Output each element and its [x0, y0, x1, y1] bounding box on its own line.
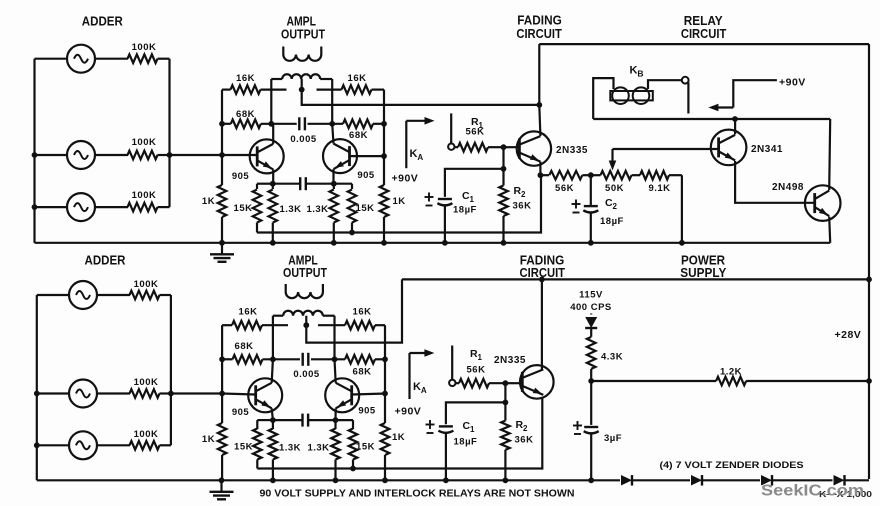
wire: +90V feed bus (15K bottoms to 2N335 emitter): [257, 175, 541, 232]
node: right collector junction (bottom): [332, 356, 338, 362]
resistor 15K (left, top): [256, 184, 258, 189]
wire: 16K row (top): [222, 88, 231, 90]
svg-text:+28V: +28V: [835, 329, 862, 341]
resistor 16K (left, bottom): [232, 321, 262, 330]
wire: Q4 collector up: [734, 119, 736, 134]
svg-text:100K: 100K: [132, 190, 157, 201]
svg-text:FADING: FADING: [517, 14, 562, 28]
resistor 68K (left, bottom): [233, 355, 263, 364]
svg-text:1.3K: 1.3K: [306, 204, 328, 215]
resistor R1 56K (bottom): [456, 382, 460, 384]
svg-text:18µF: 18µF: [600, 216, 624, 227]
node: right collector junction: [329, 121, 335, 127]
wire: Q7 base to right rail: [352, 394, 385, 395]
node: Q6 emitter junction: [270, 417, 276, 423]
svg-text:+90V: +90V: [779, 77, 806, 89]
node: fading feed junction: [536, 102, 542, 108]
resistor 1.3K (left, bottom): [272, 420, 274, 429]
wire: emitter to 15K left (bottom): [257, 419, 273, 421]
svg-text:18µF: 18µF: [454, 437, 478, 448]
svg-text:ADDER: ADDER: [85, 254, 126, 268]
wire: 9.1K down to ground rail: [681, 175, 683, 243]
wire: top adder left bus: [33, 59, 35, 243]
wire: 68K row (bottom): [222, 358, 232, 360]
switch contact (R1 input, top): [450, 113, 452, 143]
svg-text:+90V: +90V: [395, 406, 422, 418]
resistor 1K (left, top amp): [218, 185, 227, 217]
node: Q1 emitter junction: [270, 181, 276, 187]
transformer T1 output winding: [282, 47, 284, 55]
svg-text:1.2K: 1.2K: [720, 367, 742, 378]
node: left rail taps: [219, 121, 225, 127]
wire: junction to base (bottom): [505, 382, 521, 384]
zener diode D1: [621, 475, 632, 486]
zener diode D4: [834, 475, 845, 486]
wire: Q6 emitter down: [272, 408, 273, 420]
svg-text:1: 1: [478, 353, 483, 362]
wire: Q2 collector up: [332, 124, 333, 144]
node: rail junctions (top): [270, 240, 276, 246]
svg-text:2N335: 2N335: [494, 355, 526, 366]
wire: emitter to 15K right (bottom): [336, 419, 354, 421]
zener diode D3: [761, 475, 772, 486]
svg-text:ADDER: ADDER: [82, 15, 123, 29]
AC source G4: [37, 294, 69, 296]
diode (115V input): [590, 314, 592, 315]
wire: Q2 emitter down: [332, 169, 334, 184]
resistor 15K (left, bottom): [256, 420, 258, 429]
wire: Q6 base from left rail: [222, 394, 256, 395]
wire: amp left rail (bottom): [221, 325, 223, 423]
node: left collector junction: [268, 121, 274, 127]
wire: 68K row (top): [222, 123, 231, 125]
wire: T1 right end down to collector node: [331, 79, 333, 124]
svg-text:90 VOLT SUPPLY AND INTERLOCK R: 90 VOLT SUPPLY AND INTERLOCK RELAYS ARE …: [260, 489, 575, 500]
svg-text:(4) 7 VOLT ZENDER DIODES: (4) 7 VOLT ZENDER DIODES: [660, 460, 804, 471]
svg-text:100K: 100K: [132, 42, 157, 53]
wire: Q7 emitter down: [334, 408, 336, 420]
svg-text:400 CPS: 400 CPS: [570, 302, 612, 313]
wire: Q1 base from left rail: [222, 154, 257, 156]
svg-text:15K: 15K: [356, 442, 375, 453]
wire: Q1 collector up: [272, 124, 274, 144]
wire: junction down to R2: [502, 147, 504, 169]
node: power rail taps: [866, 277, 872, 283]
resistor 1K (left, bottom amp): [218, 423, 227, 455]
svg-text:100K: 100K: [134, 279, 159, 290]
svg-text:+90V: +90V: [392, 173, 419, 185]
svg-text:2: 2: [523, 424, 528, 433]
node: 15K right bottom: [349, 230, 355, 236]
svg-text:1: 1: [470, 195, 475, 204]
svg-text:1K: 1K: [393, 196, 406, 207]
AC source G5: [37, 392, 69, 394]
svg-text:36K: 36K: [513, 201, 532, 212]
wire: amp left rail (top): [221, 90, 223, 185]
potentiometer wiper arrow: [611, 149, 613, 163]
svg-text:A: A: [417, 153, 423, 162]
annotation: relay KA actuation arrow (top): [406, 120, 426, 122]
resistor 16K (right, bottom): [345, 321, 375, 330]
transistor Q8 2N335 (bottom): [520, 365, 554, 399]
wire: amp right rail (bottom): [384, 325, 386, 423]
svg-text:50K: 50K: [605, 183, 624, 194]
transistor Q6 905 (left, bottom): [248, 378, 282, 412]
capacitor 0.005 (bottom): [302, 353, 304, 366]
svg-text:2: 2: [521, 190, 526, 199]
transistor Q7 905 (right, bottom): [325, 378, 359, 412]
resistor 9.1K (top): [640, 171, 669, 180]
wire: Q6 collector up: [272, 359, 273, 383]
wire: relay circuit collector bus: [593, 118, 830, 120]
resistor 15K (right, top): [351, 184, 353, 189]
transistor Q2 905 (right, top): [323, 139, 357, 173]
svg-text:1K: 1K: [202, 434, 215, 445]
svg-text:1K: 1K: [202, 196, 215, 207]
resistor 100K (G4): [130, 291, 160, 300]
svg-text:OUTPUT: OUTPUT: [281, 28, 325, 42]
resistor 15K (right, bottom): [352, 420, 354, 429]
svg-text:SUPPLY: SUPPLY: [680, 266, 727, 280]
resistor 100K (G1): [128, 54, 158, 63]
node: left collector junction (bottom): [270, 356, 276, 362]
svg-text:1K: 1K: [392, 432, 405, 443]
wire: Q3 collector up to feed node: [539, 105, 540, 136]
svg-text:115V: 115V: [579, 290, 603, 301]
transistor Q5 2N498: [805, 185, 841, 221]
svg-text:1.3K: 1.3K: [279, 204, 301, 215]
svg-text:2: 2: [613, 202, 618, 211]
wire: adder right bus: [168, 59, 170, 207]
svg-text:B: B: [637, 68, 644, 78]
svg-text:2N341: 2N341: [751, 144, 783, 155]
wire: Q1 emitter down: [272, 169, 274, 183]
wire: T2 right end down: [333, 316, 335, 360]
resistor 68K (right, top): [343, 120, 373, 129]
wire: bottom fading top rail: [402, 278, 869, 280]
svg-text:100K: 100K: [132, 137, 157, 148]
svg-text:56K: 56K: [555, 183, 574, 194]
resistor 68K (right, bottom): [345, 355, 375, 364]
node: transformer center tap (bottom): [303, 322, 309, 328]
node: 15K right bottom (bottom): [350, 466, 356, 472]
node: 2N341 collector tap: [732, 116, 738, 122]
resistor 68K (left, top): [231, 120, 261, 129]
wire: junction to base: [504, 146, 520, 148]
relay KB coil: [593, 78, 613, 119]
wire: relay box right border / +28V rail: [868, 44, 870, 479]
node: adder bus taps: [32, 152, 38, 158]
AC source G3: [35, 206, 68, 208]
svg-text:15K: 15K: [234, 442, 253, 453]
node: collector feed (bottom fading): [539, 277, 545, 283]
svg-text:1.3K: 1.3K: [279, 443, 301, 454]
capacitor 0.005 (collector-collector, top): [298, 117, 300, 130]
wire: emitter to 15K left: [257, 183, 273, 185]
svg-text:16K: 16K: [353, 307, 372, 318]
svg-text:2N498: 2N498: [772, 182, 804, 193]
zener diode D2: [691, 475, 702, 486]
svg-text:68K: 68K: [353, 367, 372, 378]
svg-text:CIRCUIT: CIRCUIT: [516, 27, 562, 41]
svg-text:OUTPUT: OUTPUT: [283, 266, 327, 280]
wire: bottom adder output to amplifier: [171, 392, 222, 394]
svg-text:56K: 56K: [466, 127, 485, 138]
node: adder output: [167, 152, 173, 158]
wire: Q4 emitter down and to Q5 base: [735, 161, 815, 203]
transistor Q4 2N341: [711, 130, 747, 166]
svg-text:2N335: 2N335: [556, 145, 588, 156]
resistor 100K (G2): [128, 151, 158, 160]
wire: C1 top (bottom): [446, 402, 506, 424]
svg-text:905: 905: [232, 171, 250, 182]
wire: bottom ground rail: [37, 479, 620, 481]
AC source G1: [35, 58, 68, 60]
svg-text:905: 905: [358, 406, 376, 417]
ground symbol (bottom): [220, 480, 222, 491]
wire: C1 top: [445, 169, 504, 197]
node: R1/base junction: [501, 144, 507, 150]
resistor 1.3K (right, bottom): [334, 420, 336, 429]
wire: center tap down and to fading circuit: [302, 79, 540, 105]
svg-text:16K: 16K: [239, 307, 258, 318]
relay KB contact: [682, 77, 689, 84]
wire: Q8 collector up to rail: [541, 279, 543, 369]
wire: top section ground rail: [35, 242, 831, 244]
transformer T2 primary winding: [273, 315, 283, 317]
capacitor C1 18uF (top): [438, 198, 452, 200]
node: R2 top junction (bottom): [503, 400, 509, 406]
svg-text:A: A: [421, 386, 427, 395]
potentiometer 50K (top): [591, 174, 601, 176]
node: bottom rail junctions: [270, 477, 276, 483]
svg-text:68K: 68K: [236, 109, 255, 120]
resistor 100K (G3): [128, 203, 158, 212]
wire: bottom adder right bus: [170, 295, 172, 445]
wire: center tap down and right to fading rail: [306, 279, 402, 342]
node: bottom bus taps: [34, 391, 40, 397]
annotation: relay KA actuation arrow (bottom): [410, 352, 427, 354]
capacitor 3uF: [590, 381, 592, 425]
node: left rail taps (bottom): [219, 356, 225, 362]
resistor R1 56K (top): [455, 146, 459, 148]
svg-text:0.005: 0.005: [290, 134, 316, 145]
svg-text:AMPL: AMPL: [286, 15, 316, 29]
svg-text:56K: 56K: [467, 365, 486, 376]
capacitor C2 18uF: [590, 175, 592, 205]
svg-text:905: 905: [357, 170, 375, 181]
resistor 1.2K: [716, 377, 746, 386]
svg-text:15K: 15K: [356, 203, 375, 214]
transformer T2 output winding: [285, 284, 287, 292]
resistor 1.3K (left, top): [272, 184, 274, 189]
wire: amp right rail (top): [383, 90, 385, 185]
AC source G6: [37, 444, 69, 446]
wire: relay box top border: [539, 43, 869, 45]
capacitor C1 18uF (bottom): [439, 425, 453, 427]
switch contact (R1 input, bottom): [451, 346, 453, 380]
resistor 16K (right, top): [342, 85, 372, 94]
node: 56K/50K junction: [588, 172, 594, 178]
svg-text:15K: 15K: [234, 203, 253, 214]
svg-text:905: 905: [232, 407, 250, 418]
resistor 4.3K: [587, 337, 596, 369]
resistor R2 36K (bottom): [504, 402, 506, 420]
svg-text:SeekIC.com: SeekIC.com: [761, 483, 864, 500]
node: bottom adder output: [168, 391, 174, 397]
resistor R2 36K (top): [502, 169, 504, 186]
resistor 16K (left, top): [231, 85, 261, 94]
wire: wiper to 2N341 base: [613, 148, 719, 150]
node: right rail taps (bottom): [382, 356, 388, 362]
wire: Q2 base to right rail: [350, 155, 385, 157]
transformer T1 primary winding: [271, 78, 282, 80]
wire: 16K row (bottom): [222, 324, 232, 326]
AC source G2: [35, 154, 68, 156]
svg-text:0.005: 0.005: [293, 369, 319, 380]
resistor 56K (emitter chain, top): [540, 174, 549, 176]
wire: adder output to amplifier: [170, 154, 223, 156]
node: right rail taps: [381, 121, 387, 127]
resistor 1.3K (right, top): [333, 184, 335, 189]
svg-text:68K: 68K: [349, 130, 368, 141]
svg-text:1: 1: [470, 425, 475, 434]
svg-text:36K: 36K: [515, 435, 534, 446]
wire: T1 left end down to collector node: [270, 79, 272, 124]
svg-text:9.1K: 9.1K: [648, 183, 670, 194]
resistor 1K (right, bottom amp): [381, 423, 390, 455]
transistor Q1 905 (left, top): [250, 139, 284, 173]
wire: junction down: [504, 383, 506, 402]
ground symbol (top): [221, 243, 223, 254]
node: R1/base junction (bottom): [503, 380, 509, 386]
wire: feed bus (15K bottoms to 2N335 emitter, bottom): [257, 397, 542, 469]
capacitor (emitter-emitter, bottom): [273, 419, 303, 421]
node: 4.3K / 1.2K junction: [588, 378, 594, 384]
svg-text:CIRCUIT: CIRCUIT: [681, 27, 727, 41]
wire: emitter to 15K right: [334, 183, 352, 185]
svg-text:100K: 100K: [134, 429, 159, 440]
svg-text:100K: 100K: [134, 377, 159, 388]
wire: T2 left end down: [272, 316, 274, 360]
wire: Q5 collector up to bus: [829, 119, 830, 190]
resistor 100K (G6): [130, 441, 160, 450]
wire: 1.2K row: [591, 380, 716, 382]
svg-text:3µF: 3µF: [604, 433, 622, 444]
svg-text:16K: 16K: [236, 73, 255, 84]
+90V supply lead with arrow (relay): [733, 80, 777, 107]
transistor Q3 2N335 (top): [517, 131, 551, 165]
svg-text:18µF: 18µF: [453, 205, 477, 216]
wire: bottom adder left bus: [36, 295, 38, 480]
node: Q2 emitter junction: [331, 181, 337, 187]
resistor 100K (G5): [130, 389, 160, 398]
node: Q3 emitter junction: [538, 172, 544, 178]
resistor 1K (right, top amp): [380, 185, 389, 217]
svg-text:16K: 16K: [348, 73, 367, 84]
wire: Q3 emitter down: [539, 162, 541, 176]
svg-text:4.3K: 4.3K: [601, 352, 623, 363]
wire: Q5 emitter down to ground rail: [829, 217, 830, 243]
node: transformer center tap (top): [299, 87, 305, 93]
wire: relay box left border / Q3 collector feed: [538, 44, 540, 105]
wire: Q7 collector up: [335, 359, 336, 383]
node: R2 top junction: [501, 166, 507, 172]
svg-text:68K: 68K: [235, 341, 254, 352]
node: Q7 emitter junction: [333, 417, 339, 423]
svg-text:1.3K: 1.3K: [307, 443, 329, 454]
svg-text:RELAY: RELAY: [684, 14, 724, 28]
capacitor (emitter-emitter, top): [273, 183, 300, 185]
